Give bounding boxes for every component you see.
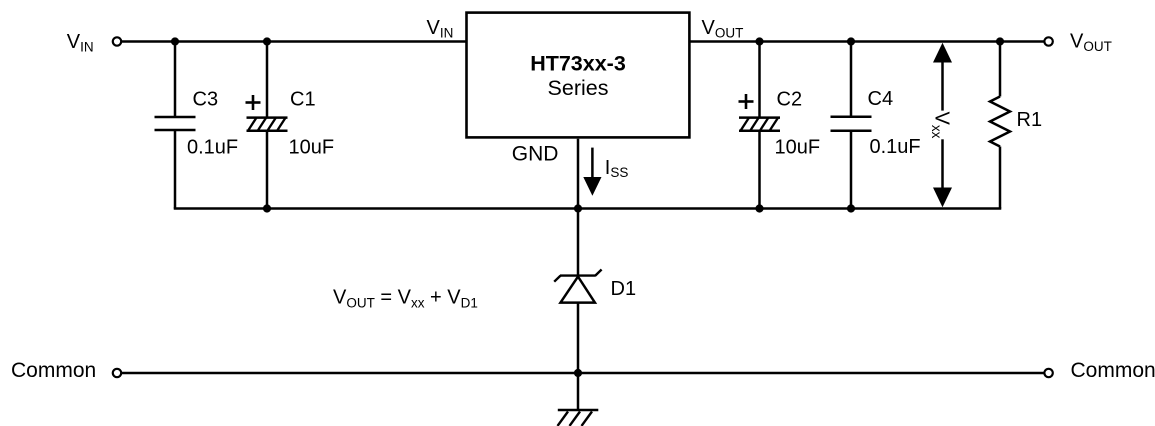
wire to ground xyxy=(577,373,580,410)
svg-text:GND: GND xyxy=(512,142,559,165)
svg-text:Series: Series xyxy=(548,76,609,100)
svg-text:C4: C4 xyxy=(868,88,894,110)
svg-text:HT73xx-3: HT73xx-3 xyxy=(530,51,626,75)
svg-text:D1: D1 xyxy=(611,278,637,300)
wire GND pin xyxy=(577,139,580,276)
wire common rail xyxy=(122,372,1045,375)
node junction R1 top xyxy=(996,37,1004,45)
polarity plus C2 xyxy=(739,94,754,109)
wire diode to common xyxy=(577,303,580,373)
node junction common/ground xyxy=(574,369,582,377)
svg-text:Common: Common xyxy=(11,359,96,382)
capacitor C3 xyxy=(155,42,196,209)
capacitor C4 xyxy=(831,42,872,209)
resistor R1 xyxy=(990,42,1010,209)
wire top rail left xyxy=(122,40,467,43)
terminal VIN xyxy=(113,37,121,45)
svg-text:10uF: 10uF xyxy=(289,136,335,158)
ground xyxy=(558,410,599,426)
wire mid rail xyxy=(174,207,1002,210)
svg-text:10uF: 10uF xyxy=(775,136,821,158)
terminal Common right xyxy=(1044,369,1052,377)
svg-text:C3: C3 xyxy=(193,89,219,111)
node junction C1 top xyxy=(263,37,271,45)
node junction C1 bottom xyxy=(263,204,271,212)
capacitor C1 (electrolytic) xyxy=(247,42,288,209)
svg-text:C2: C2 xyxy=(777,89,803,111)
svg-text:Common: Common xyxy=(1071,359,1155,382)
capacitor C2 (electrolytic) xyxy=(739,42,780,209)
svg-text:R1: R1 xyxy=(1017,109,1043,131)
wire top rail right xyxy=(689,40,1044,43)
node junction C4 bottom xyxy=(847,204,855,212)
svg-text:0.1uF: 0.1uF xyxy=(187,136,238,158)
terminal Common left xyxy=(113,369,121,377)
polarity plus C1 xyxy=(246,95,261,110)
op-amp/regulator U1 box HT73xx-3 xyxy=(467,13,690,138)
node junction GND rail xyxy=(574,204,582,212)
node junction C4 top xyxy=(847,37,855,45)
Vxx measurement arrow xyxy=(933,43,952,207)
Iss current arrow xyxy=(583,148,601,196)
svg-text:C1: C1 xyxy=(290,89,316,111)
node junction C2 top xyxy=(755,37,763,45)
node junction C3 top xyxy=(171,37,179,45)
node junction C2 bottom xyxy=(755,204,763,212)
zener diode D1 xyxy=(554,270,601,303)
svg-text:0.1uF: 0.1uF xyxy=(870,136,921,158)
terminal VOUT xyxy=(1044,37,1052,45)
